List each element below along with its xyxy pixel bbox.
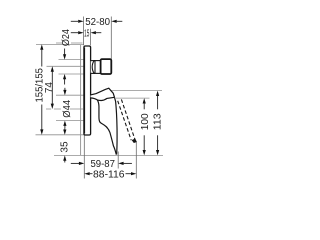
spout body top edge — [91, 97, 115, 100]
dimension Ø44 — [62, 88, 73, 129]
wall line — [80, 45, 82, 155]
svg-text:113: 113 — [152, 113, 163, 130]
dimension 35 — [60, 128, 71, 162]
ref line handle bottom (Ø24 bottom) — [59, 73, 92, 75]
dimension 59-87 — [71, 159, 132, 170]
handle neck — [91, 61, 95, 74]
spout rear and underside — [97, 100, 116, 155]
extension line 15 right — [90, 29, 92, 46]
spout front edge — [115, 97, 118, 154]
dimension 74 — [44, 66, 55, 109]
extension line 59-87 right (spout tip) — [117, 152, 119, 169]
svg-text:35: 35 — [60, 141, 71, 153]
ref line 113 top — [110, 90, 162, 92]
dimension 155/155 — [35, 44, 46, 134]
dimension 100 — [140, 98, 151, 155]
leader line Ø24 text row — [56, 42, 83, 44]
leader line spout axis (74 bottom, Ø44 text row) — [46, 108, 83, 110]
ref line spout escutcheon bottom (Ø44 bottom) — [56, 120, 84, 122]
handle neck inner arc — [92, 61, 94, 74]
dimension 88-116 — [84, 169, 136, 180]
ref line handle axis (74 top) — [47, 65, 85, 67]
plate left edge bold — [83, 48, 85, 134]
svg-text:88-116: 88-116 — [93, 169, 125, 180]
spout top cap outline — [91, 88, 115, 97]
ref baseline spout tip (35/100/113 bottom) — [54, 154, 163, 156]
extension line 52-80/15 left — [83, 17, 85, 46]
spout silhouette fill — [91, 88, 118, 154]
svg-text:Ø44: Ø44 — [62, 99, 73, 117]
dimension 113 — [152, 91, 163, 156]
extension line 52-80 right (handle tip) — [110, 17, 112, 60]
escutcheon plate (side view) — [84, 46, 91, 135]
svg-text:15: 15 — [84, 28, 89, 39]
dashed spout tip — [132, 139, 137, 144]
handle end cap — [101, 59, 112, 74]
extension line 59-87/88-116 left — [83, 135, 85, 179]
handle mid section — [95, 61, 101, 74]
dashed spout alternate position outer line — [121, 99, 134, 139]
svg-text:Ø24: Ø24 — [61, 29, 72, 46]
svg-text:100: 100 — [140, 113, 151, 130]
ref line plate bottom (155/155 bottom, 35 top) — [36, 134, 85, 136]
svg-text:52-80: 52-80 — [85, 17, 110, 28]
svg-text:74: 74 — [44, 82, 55, 94]
ref line spout escutcheon top (Ø44 top) — [56, 94, 90, 96]
dimension 52-80 — [71, 17, 123, 28]
ref line 100 top — [116, 97, 150, 99]
ref line plate top (155/155 top) — [36, 43, 84, 45]
ref line handle top (Ø24 top) — [59, 59, 92, 61]
dashed spout alternate position inner line — [118, 101, 132, 140]
extension line 88-116 right (dashed spout tip) — [135, 142, 137, 179]
dimension 15 — [71, 28, 102, 39]
dimension Ø24 — [61, 29, 72, 85]
